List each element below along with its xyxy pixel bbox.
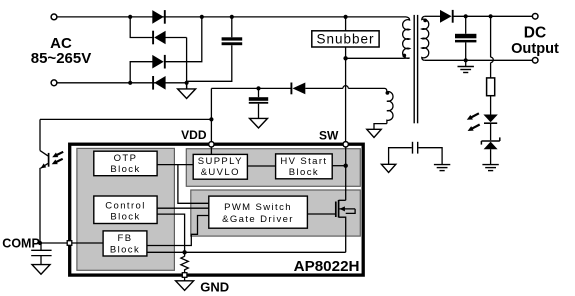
- svg-text:Block: Block: [289, 167, 319, 178]
- svg-text:HV Start: HV Start: [280, 156, 327, 167]
- svg-text:Block: Block: [110, 244, 140, 255]
- svg-text:Control: Control: [105, 200, 145, 211]
- svg-text:SUPPLY: SUPPLY: [198, 156, 243, 167]
- svg-text:PWM Switch: PWM Switch: [224, 202, 292, 213]
- svg-text:OTP: OTP: [114, 153, 138, 164]
- svg-text:85~265V: 85~265V: [31, 50, 91, 67]
- svg-text:Output: Output: [511, 41, 559, 57]
- svg-text:COMP: COMP: [2, 237, 40, 251]
- svg-text:DC: DC: [524, 24, 546, 41]
- svg-text:Block: Block: [110, 164, 140, 175]
- svg-text:FB: FB: [118, 233, 133, 244]
- svg-text:VDD: VDD: [181, 128, 207, 142]
- svg-text:&UVLO: &UVLO: [201, 167, 240, 178]
- svg-text:Block: Block: [110, 212, 140, 223]
- svg-text:SW: SW: [319, 128, 339, 142]
- svg-text:GND: GND: [200, 279, 229, 294]
- svg-text:&Gate Driver: &Gate Driver: [222, 214, 294, 225]
- svg-text:Snubber: Snubber: [316, 31, 374, 46]
- svg-text:AP8022H: AP8022H: [294, 258, 360, 275]
